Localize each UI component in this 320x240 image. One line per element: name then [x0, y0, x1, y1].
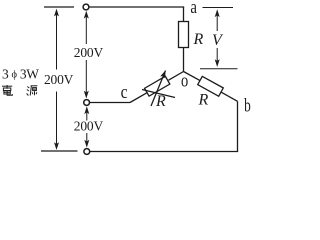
svg-text:3 ϕ 3W: 3 ϕ 3W	[2, 66, 39, 81]
svg-text:R: R	[155, 93, 166, 110]
wire top phase a	[89, 6, 184, 8]
wire resistor to node o	[183, 48, 185, 72]
svg-text:R: R	[198, 92, 209, 109]
wire top-left stub	[44, 6, 74, 8]
V dimension top reference line	[203, 7, 234, 9]
wire node o to resistor b	[184, 72, 201, 81]
wire drop from a to resistor	[183, 7, 185, 22]
wire right vertical drop to bottom	[237, 101, 239, 151]
dimension arrows group	[54, 8, 238, 151]
svg-text:200V: 200V	[74, 45, 104, 60]
resistor R phase a (vertical box)	[179, 22, 189, 48]
200V bottom-inner arrow down	[86, 133, 88, 144]
variable resistor strike line (shallow)	[142, 90, 175, 98]
wire resistor b to corner	[221, 92, 238, 101]
V dimension arrow up	[216, 13, 218, 32]
200V top-inner arrow down	[85, 60, 87, 95]
svg-text:a: a	[190, 0, 197, 17]
svg-text:o: o	[181, 70, 188, 91]
svg-text:V: V	[212, 32, 224, 49]
wire bottom-left stub	[41, 150, 78, 152]
svg-text:b: b	[244, 97, 251, 117]
200V outer arrow up	[56, 12, 58, 70]
200V top-inner arrow up	[85, 14, 87, 44]
wire bottom	[90, 151, 238, 153]
kanji GEN (source) drawn as strokes	[27, 86, 38, 96]
200V outer arrow down	[56, 92, 58, 147]
200V bottom-inner arrow up	[86, 110, 88, 121]
wire variable resistor to node o	[169, 72, 184, 81]
svg-text:c: c	[121, 82, 128, 102]
svg-text:R: R	[193, 31, 204, 48]
terminal circle top (phase a)	[83, 4, 89, 10]
kanji DEN (electricity) drawn as strokes	[2, 85, 12, 95]
wire c horizontal stub	[90, 102, 131, 104]
svg-text:200V: 200V	[74, 119, 104, 134]
variable resistor R phase c (rotated box)	[145, 76, 170, 96]
svg-text:200V: 200V	[44, 72, 74, 87]
wire c bend to variable resistor	[130, 92, 148, 102]
resistor R phase b (rotated box)	[198, 76, 224, 96]
V dimension bottom reference line	[200, 68, 238, 70]
variable resistor arrow (steep, arrowhead top)	[151, 70, 166, 106]
terminal circle middle (phase c)	[84, 100, 90, 106]
V dimension arrow down	[216, 48, 218, 64]
terminal circle bottom (phase b)	[84, 149, 90, 155]
